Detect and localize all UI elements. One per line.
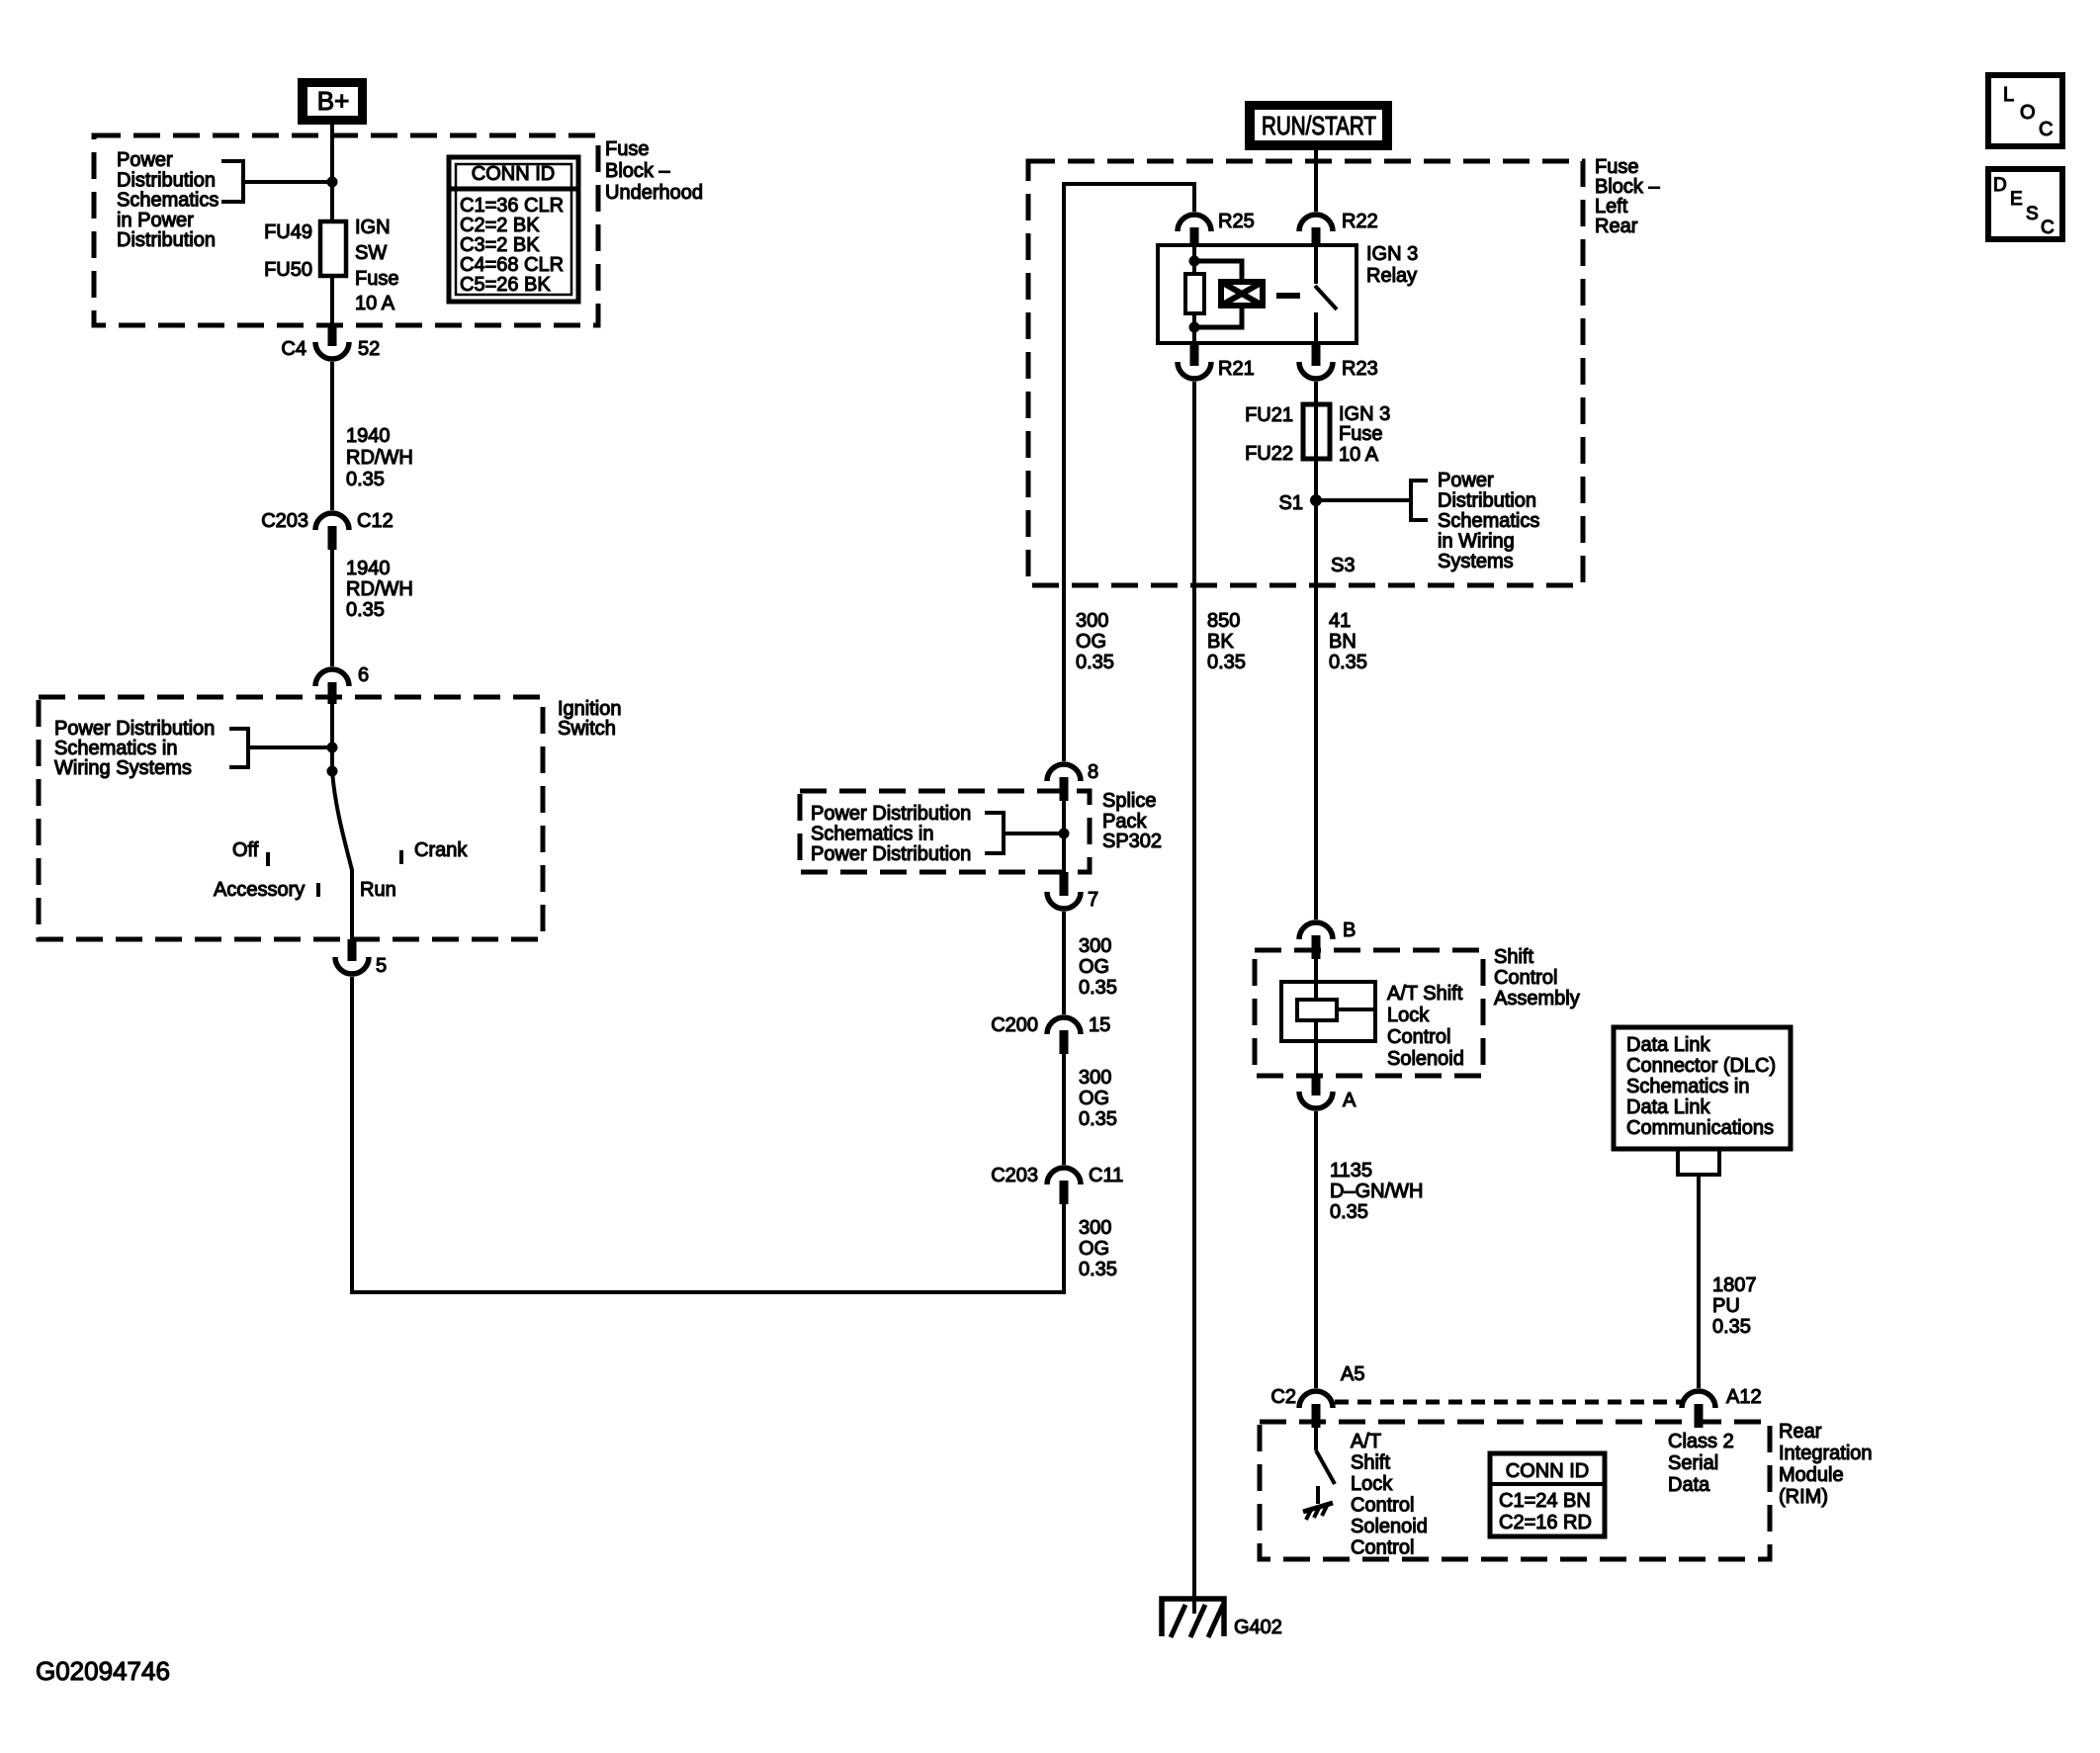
svg-text:B+: B+	[317, 86, 350, 116]
connector R21	[1178, 343, 1255, 380]
connector 5	[335, 939, 387, 977]
connector R22	[1299, 211, 1378, 247]
svg-text:C11: C11	[1089, 1165, 1123, 1186]
svg-text:FU22: FU22	[1245, 443, 1293, 465]
wire C203 to connector 6 (1940 RD/WH)	[330, 550, 334, 666]
svg-text:S1: S1	[1279, 492, 1303, 514]
svg-text:Accessory: Accessory	[214, 879, 305, 901]
svg-text:C4: C4	[281, 338, 306, 360]
svg-text:A: A	[1343, 1090, 1356, 1111]
switch to ground inside RIM	[1316, 1428, 1335, 1484]
svg-text:C203: C203	[261, 510, 308, 532]
connector C2/A5	[1270, 1363, 1364, 1428]
connector A	[1299, 1076, 1356, 1111]
svg-text:S: S	[2026, 204, 2039, 224]
ground symbol inside RIM	[1303, 1486, 1333, 1520]
connector C4/52	[281, 325, 380, 360]
wire R23 to fuse FU21	[1314, 382, 1318, 404]
svg-text:E: E	[2010, 189, 2023, 210]
svg-text:7: 7	[1088, 889, 1098, 911]
connector 8	[1047, 761, 1098, 801]
wire fuse to S1 and out (41 BN)	[1314, 459, 1318, 920]
svg-text:15: 15	[1089, 1014, 1110, 1036]
wire through splice pack	[1062, 801, 1066, 872]
relay coil resistor	[1185, 245, 1204, 343]
svg-text:O: O	[2020, 102, 2036, 124]
svg-text:RUN/START: RUN/START	[1262, 111, 1376, 140]
connector ID table CONN ID (RIM)	[1490, 1453, 1605, 1536]
svg-text:C: C	[2041, 218, 2055, 238]
wire DLC to A12 (1807 PU)	[1697, 1175, 1701, 1388]
DLC reference box	[1614, 1027, 1791, 1149]
ignition switch dashed box	[39, 697, 543, 939]
svg-text:G02094746: G02094746	[36, 1656, 170, 1686]
wire fuse to connector C4	[330, 276, 334, 325]
svg-text:R21: R21	[1218, 358, 1255, 380]
svg-text:Off: Off	[232, 839, 259, 861]
connector C200/15	[991, 1014, 1110, 1054]
solenoid A/T shift lock control	[1281, 959, 1375, 1076]
svg-text:B: B	[1343, 920, 1356, 941]
power symbol RUN/START	[1245, 101, 1392, 150]
connector 7	[1047, 872, 1098, 911]
LOC reference box	[1988, 75, 2062, 146]
svg-text:IGN 3Relay: IGN 3Relay	[1366, 243, 1418, 287]
junction S1	[1310, 494, 1322, 506]
bracket from reference text to ignition wire	[229, 729, 332, 767]
svg-text:R25: R25	[1218, 211, 1255, 232]
svg-text:Run: Run	[360, 879, 396, 901]
svg-text:52: 52	[358, 338, 380, 360]
DLC bracket	[1678, 1149, 1719, 1175]
shift control assembly dashed box	[1255, 950, 1483, 1076]
connector R25	[1178, 211, 1255, 247]
connector ID table CONN ID (underhood)	[449, 157, 578, 302]
ignition switch wire into box	[330, 704, 334, 771]
connector R23	[1299, 343, 1378, 380]
bracket from reference text to B+ wire	[221, 161, 332, 202]
fuse block left rear dashed box	[1028, 161, 1583, 585]
junction node at splice	[1059, 829, 1070, 839]
svg-text:A5: A5	[1341, 1363, 1364, 1385]
relay coil winding branch	[1194, 261, 1263, 327]
module boundary dashed line C2 to A12	[1335, 1400, 1681, 1405]
svg-text:FU50: FU50	[264, 259, 312, 281]
connector C203/C12	[261, 510, 394, 550]
svg-text:G402: G402	[1234, 1617, 1282, 1638]
svg-text:C203: C203	[991, 1165, 1038, 1186]
connector 6	[315, 664, 369, 704]
svg-text:R23: R23	[1342, 358, 1378, 380]
fuse FU49/FU50 IGN SW Fuse 10 A	[264, 217, 398, 314]
svg-text:FU21: FU21	[1245, 404, 1293, 426]
svg-text:CONN ID: CONN ID	[472, 163, 555, 185]
svg-text:IgnitionSwitch: IgnitionSwitch	[558, 698, 622, 740]
contact tick Crank	[399, 850, 403, 864]
wire 7 to C200 (300 OG)	[1062, 912, 1066, 1014]
DESC reference box	[1988, 169, 2062, 239]
junction nodes on ignition feed	[327, 743, 338, 753]
svg-text:Crank: Crank	[414, 839, 468, 861]
wire ignition 5 to splice column (300 OG)	[352, 977, 1064, 1292]
svg-text:D: D	[1993, 175, 2007, 196]
power symbol B+	[298, 78, 367, 125]
svg-text:S3: S3	[1331, 555, 1355, 576]
svg-text:L: L	[2003, 84, 2014, 106]
fuse FU21/FU22 IGN 3 Fuse 10 A	[1245, 403, 1390, 466]
connector A12	[1682, 1386, 1762, 1428]
wire C200 to C203 (300 OG)	[1062, 1054, 1066, 1165]
svg-text:C2: C2	[1270, 1386, 1296, 1408]
splice pack SP302 dashed box	[800, 791, 1090, 872]
svg-text:R22: R22	[1342, 211, 1378, 232]
bracket from reference text to splice wire	[985, 813, 1064, 853]
junction node on B+ wire	[327, 177, 338, 188]
fuse block underhood dashed box	[94, 135, 598, 325]
relay linkage dash	[1276, 293, 1300, 299]
relay switch contact	[1315, 245, 1337, 343]
wire B+ down to fuse FU49	[330, 125, 334, 221]
svg-text:C12: C12	[357, 510, 394, 532]
wire R21 to ground G402 (850 BK)	[1192, 382, 1196, 1614]
svg-text:C200: C200	[991, 1014, 1038, 1036]
svg-text:A12: A12	[1726, 1386, 1762, 1408]
svg-text:FU49: FU49	[264, 221, 312, 243]
wire C4 to C203 (1940 RD/WH)	[330, 362, 334, 510]
bracket and reference text at S1	[1316, 481, 1428, 520]
wire RUN/START to R22	[1314, 150, 1318, 212]
connector B	[1299, 920, 1356, 959]
ignition switch blade	[332, 771, 352, 939]
svg-text:C1=24 BNC2=16 RD: C1=24 BNC2=16 RD	[1499, 1490, 1592, 1534]
connector C203/C11	[991, 1165, 1123, 1204]
svg-text:5: 5	[376, 955, 387, 977]
relay IGN 3 box	[1158, 245, 1356, 343]
svg-text:C: C	[2039, 119, 2053, 140]
svg-text:8: 8	[1088, 761, 1098, 783]
wire A to C2 (1135 D-GN/WH)	[1314, 1111, 1318, 1388]
svg-text:6: 6	[358, 664, 369, 686]
contact tick Accessory	[316, 883, 320, 897]
svg-text:CONN ID: CONN ID	[1506, 1460, 1589, 1482]
ground G402	[1162, 1599, 1282, 1638]
rear integration module dashed box	[1260, 1422, 1770, 1559]
contact tick Off	[266, 852, 270, 866]
wire splice branch to R25 and down	[1064, 184, 1194, 761]
